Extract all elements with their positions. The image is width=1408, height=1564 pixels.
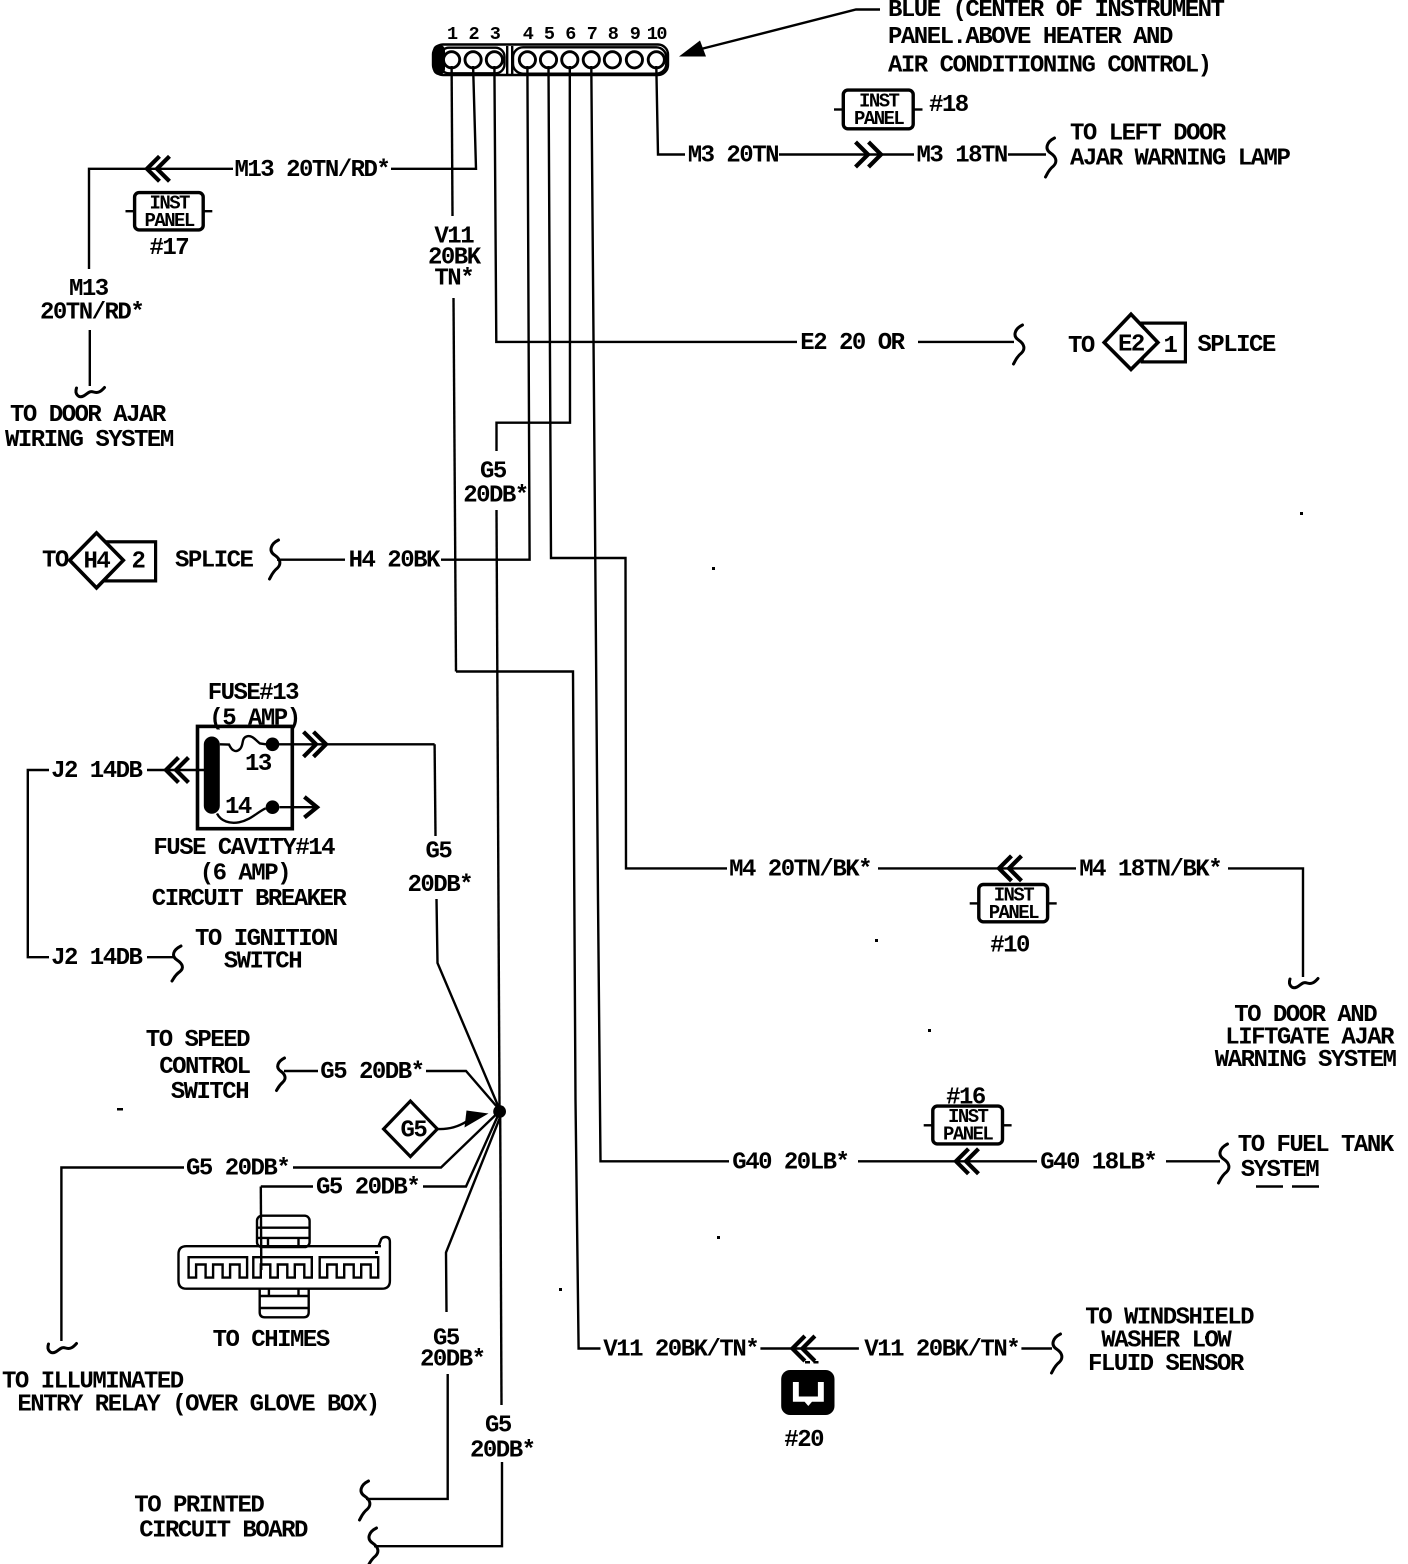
- wire H4 segment: [277, 559, 345, 561]
- wire G5 segment diagonal into junction: [426, 1071, 498, 1108]
- splice symbol H4 pin 2: [70, 533, 156, 588]
- wire G5 segment to squiggle: [366, 1374, 448, 1499]
- svg-text:1: 1: [1164, 333, 1178, 360]
- wire G5 from illuminated entry relay: [61, 1168, 184, 1342]
- wire J2 bracket: [28, 770, 49, 957]
- connector symbol (double chevron) on J2 wire: [166, 759, 187, 781]
- svg-text:TO: TO: [42, 548, 69, 575]
- wire M3 segment to off-page: [1008, 153, 1046, 155]
- svg-text:J2 14DB: J2 14DB: [51, 945, 142, 972]
- svg-text:(5 AMP): (5 AMP): [209, 706, 299, 733]
- svg-text:SPLICE: SPLICE: [175, 548, 254, 575]
- circuit breaker 14 element: [217, 808, 266, 823]
- wire G5 junction-vertical to squiggle (row 2): [374, 1462, 502, 1546]
- svg-text:WIRING SYSTEM: WIRING SYSTEM: [5, 427, 174, 454]
- note: to speed control switch: [146, 1027, 251, 1106]
- connector symbol (double chevron) on M4 wire: [999, 857, 1020, 879]
- wire-end hook to illuminated entry relay: [48, 1344, 77, 1353]
- wire G5 from chimes connector: [261, 1185, 313, 1187]
- svg-text:M13 20TN/RD*: M13 20TN/RD*: [235, 157, 390, 184]
- leader arrowhead: [465, 1111, 489, 1128]
- wire J2 segment to ignition switch: [147, 956, 174, 958]
- wire J2 14DB to fuse block: [147, 769, 204, 771]
- wire G5 branch to printed circuit board (row 1): [446, 1115, 501, 1312]
- svg-text:H4: H4: [84, 549, 111, 576]
- svg-text:5: 5: [544, 24, 555, 45]
- svg-text:G5 20DB*: G5 20DB*: [320, 1059, 423, 1086]
- svg-text:#20: #20: [784, 1427, 824, 1454]
- svg-text:#10: #10: [990, 933, 1030, 960]
- svg-text:TO FUEL TANK: TO FUEL TANK: [1238, 1132, 1395, 1159]
- svg-text:TO: TO: [1068, 333, 1095, 360]
- svg-text:#18: #18: [929, 92, 969, 119]
- svg-text:PANEL: PANEL: [943, 1124, 993, 1146]
- svg-text:G40 18LB*: G40 18LB*: [1040, 1149, 1156, 1176]
- note: to fuel tank system: [1238, 1132, 1395, 1184]
- wire from circuit breaker 14 output: [280, 806, 317, 808]
- wire G5 segment diagonal into junction: [293, 1113, 498, 1168]
- wire G5 from fuse down to junction: [433, 744, 436, 836]
- svg-text:AIR CONDITIONING CONTROL): AIR CONDITIONING CONTROL): [888, 53, 1211, 80]
- svg-text:#17: #17: [150, 235, 189, 262]
- label G5 20DB* (printed circuit branch 2): [470, 1413, 535, 1465]
- terminal section 1: [189, 1257, 248, 1277]
- svg-text:G5: G5: [480, 459, 507, 486]
- inline connector INST PANEL #16: [924, 1106, 1012, 1146]
- terminal section 3: [320, 1257, 379, 1277]
- wire M3 segment: [779, 153, 914, 155]
- terminal section 2: [253, 1257, 311, 1277]
- connector C1 body (10-cavity instrument panel connector): [433, 45, 668, 76]
- circuit breaker 14 terminal dot: [266, 800, 280, 814]
- pin 1 cavity: [444, 52, 460, 68]
- off-page squiggle from speed control switch: [277, 1058, 286, 1091]
- label G5 20DB* (printed circuit branch 1): [420, 1326, 485, 1374]
- svg-text:M3 20TN: M3 20TN: [688, 143, 778, 170]
- off-page squiggle to fuel tank system: [1219, 1144, 1229, 1183]
- label V11 20BK TN* (pin 1 wire label): [428, 224, 482, 293]
- chimes connector J-chimes: [179, 1216, 390, 1318]
- wire-end hook to door and liftgate ajar warning system: [1289, 979, 1318, 988]
- svg-text:CONTROL: CONTROL: [159, 1054, 250, 1081]
- svg-text:14: 14: [225, 794, 252, 821]
- svg-text:7: 7: [587, 24, 597, 45]
- note: to door ajar wiring system: [5, 402, 174, 454]
- junction dot (G5 splice point): [493, 1105, 506, 1118]
- wire M4 segment to door/liftgate ajar warning system: [1228, 868, 1303, 977]
- svg-text:TO CHIMES: TO CHIMES: [213, 1327, 330, 1354]
- connector main body: [179, 1237, 390, 1289]
- splice reference diamond G5: [384, 1101, 438, 1157]
- note: to windshield washer low fluid sensor: [1085, 1305, 1254, 1379]
- wire E2 segment: [918, 341, 1014, 343]
- svg-text:G5 20DB*: G5 20DB*: [316, 1175, 419, 1202]
- scan speckles: [117, 512, 1303, 1364]
- note: to printed circuit board: [134, 1493, 308, 1545]
- svg-text:20DB*: 20DB*: [408, 872, 473, 899]
- off-page squiggle to left door ajar warning lamp: [1046, 138, 1056, 177]
- svg-text:V11 20BK/TN*: V11 20BK/TN*: [603, 1337, 758, 1364]
- pin 6 cavity: [562, 52, 578, 68]
- note: to door and liftgate ajar warning system: [1215, 1002, 1397, 1074]
- svg-text:20TN/RD*: 20TN/RD*: [40, 300, 143, 327]
- svg-text:M4 20TN/BK*: M4 20TN/BK*: [729, 856, 871, 883]
- wire drop into chimes connector: [260, 1187, 263, 1271]
- wire M3: pin 10 to left door ajar warning lamp: [656, 66, 685, 155]
- svg-text:G5: G5: [426, 839, 453, 866]
- svg-text:G5: G5: [485, 1413, 512, 1440]
- svg-text:J2 14DB: J2 14DB: [51, 758, 142, 785]
- wire V11 segment: [760, 1347, 859, 1349]
- svg-text:TO PRINTED: TO PRINTED: [134, 1493, 264, 1520]
- inline connector INST PANEL #17: [126, 193, 213, 233]
- svg-text:WARNING SYSTEM: WARNING SYSTEM: [1215, 1047, 1397, 1074]
- svg-text:E2 20 OR: E2 20 OR: [800, 330, 905, 357]
- svg-text:4: 4: [523, 24, 534, 45]
- connector symbol (double chevron) on M13 wire: [147, 158, 168, 180]
- pin numbers 1-10: [447, 24, 667, 45]
- connector location callout leader arrow: [679, 41, 706, 57]
- connector top latch block: [257, 1216, 310, 1247]
- svg-text:9: 9: [630, 24, 640, 45]
- off-page squiggle to E2 splice: [1014, 325, 1024, 364]
- pin 8 cavity: [604, 52, 620, 68]
- stray dashes under SYSTEM: [1256, 1185, 1283, 1187]
- svg-text:M3 18TN: M3 18TN: [917, 143, 1007, 170]
- wire M4: pin 5 jog right and down: [549, 66, 728, 868]
- svg-text:FUSE CAVITY#14: FUSE CAVITY#14: [153, 835, 335, 862]
- svg-text:#16: #16: [946, 1085, 986, 1112]
- wire H4: pin 4 to splice H4: [441, 66, 530, 560]
- fuse 13 element: [220, 736, 266, 751]
- grommet symbol #20: [781, 1370, 834, 1415]
- wire G5 segment down to junction: [497, 510, 500, 1107]
- svg-text:8: 8: [608, 24, 619, 45]
- note: to left door ajar warning lamp: [1070, 121, 1290, 173]
- wire G5: pin 6 jog to main G5 net: [497, 66, 571, 451]
- label FUSE CAVITY#14 (6 AMP) CIRCUIT BREAKER: [152, 835, 348, 913]
- svg-text:FLUID SENSOR: FLUID SENSOR: [1088, 1351, 1245, 1378]
- svg-text:SYSTEM: SYSTEM: [1241, 1157, 1320, 1184]
- wire-end hook to door ajar wiring system: [76, 388, 105, 397]
- pin 7 cavity: [583, 52, 599, 68]
- wire M13 segment: [89, 169, 233, 269]
- label M13 / 20TN/RD* (vertical wire label): [40, 276, 143, 327]
- label G5 20DB* (fuse output wire): [408, 839, 473, 900]
- pin 10 cavity: [648, 52, 664, 68]
- wire M4 segment: [878, 867, 1076, 869]
- wire G5 from speed control switch: [284, 1070, 318, 1072]
- svg-text:CIRCUIT BOARD: CIRCUIT BOARD: [139, 1518, 308, 1545]
- wire from fuse 13 output: [279, 743, 435, 745]
- wire V11: pin 1 down: [450, 66, 453, 216]
- svg-text:20DB*: 20DB*: [420, 1347, 485, 1374]
- wire G5 segment diagonal into junction: [423, 1115, 498, 1187]
- svg-text:PANEL: PANEL: [145, 210, 195, 232]
- connector symbol (single chevron) breaker 14 output: [306, 798, 317, 816]
- svg-text:FUSE#13: FUSE#13: [208, 680, 299, 707]
- pin 2 cavity: [465, 52, 481, 68]
- fuse block F13 / circuit breaker CB14: [198, 680, 300, 829]
- wire G40: pin 7 down to fuel tank row: [591, 66, 729, 1161]
- off-page squiggle to printed circuit board: [360, 1481, 370, 1520]
- connector bottom latch block: [260, 1289, 309, 1318]
- note: to illuminated entry relay (over glove box): [2, 1369, 379, 1419]
- svg-text:PANEL.ABOVE HEATER AND: PANEL.ABOVE HEATER AND: [888, 24, 1173, 51]
- svg-text:H4 20BK: H4 20BK: [349, 548, 441, 575]
- svg-text:TN*: TN*: [434, 266, 473, 293]
- svg-text:2: 2: [132, 549, 145, 576]
- note: to ignition switch: [195, 926, 337, 976]
- svg-text:G5: G5: [401, 1118, 428, 1145]
- svg-text:PANEL: PANEL: [989, 902, 1039, 924]
- label G5 20DB* (pin 6 wire): [463, 459, 528, 510]
- wire G5 below junction: [500, 1116, 501, 1405]
- wire E2: pin 3 to splice: [494, 66, 797, 342]
- svg-text:BLUE (CENTER OF INSTRUMENT: BLUE (CENTER OF INSTRUMENT: [888, 0, 1225, 24]
- svg-text:PANEL: PANEL: [854, 108, 904, 130]
- svg-text:SWITCH: SWITCH: [224, 949, 302, 976]
- svg-text:AJAR WARNING LAMP: AJAR WARNING LAMP: [1070, 146, 1290, 173]
- off-page squiggle to H4 splice: [270, 540, 280, 579]
- svg-text:(6 AMP): (6 AMP): [200, 861, 290, 888]
- pin 5 cavity: [540, 52, 556, 68]
- pin 9 cavity: [626, 52, 642, 68]
- bus bar (filled): [204, 737, 220, 814]
- svg-text:G40 20LB*: G40 20LB*: [732, 1149, 848, 1176]
- svg-text:TO SPEED: TO SPEED: [146, 1027, 250, 1054]
- svg-text:20DB*: 20DB*: [470, 1438, 535, 1465]
- inline connector INST PANEL #18: [834, 90, 923, 130]
- svg-text:SWITCH: SWITCH: [171, 1079, 249, 1106]
- svg-text:2: 2: [469, 24, 480, 45]
- svg-text:E2: E2: [1118, 332, 1144, 359]
- off-page squiggle to printed circuit board (row 2): [368, 1528, 378, 1564]
- svg-text:TO LEFT DOOR: TO LEFT DOOR: [1070, 121, 1227, 148]
- connector symbol (double chevron) fuse 13 output: [305, 733, 326, 755]
- svg-text:CIRCUIT BREAKER: CIRCUIT BREAKER: [152, 886, 348, 913]
- pin 4 cavity: [519, 52, 535, 68]
- svg-text:SPLICE: SPLICE: [1197, 332, 1276, 359]
- wire M13 lower segment: [89, 330, 91, 386]
- svg-text:13: 13: [245, 751, 272, 778]
- inline connector INST PANEL #10: [970, 885, 1057, 925]
- svg-text:3: 3: [490, 24, 501, 45]
- svg-text:TO DOOR AJAR: TO DOOR AJAR: [10, 402, 167, 429]
- curved leader from G5 diamond to junction: [437, 1122, 466, 1130]
- svg-text:G5 20DB*: G5 20DB*: [186, 1156, 289, 1183]
- svg-text:1: 1: [447, 24, 458, 45]
- pin 3 cavity: [486, 52, 502, 68]
- wire G40 segment: [858, 1160, 1037, 1162]
- off-page squiggle to ignition switch: [172, 946, 182, 981]
- connector symbol (double chevron) on M3 wire: [857, 144, 881, 166]
- connector symbol (double chevron) on V11 wire: [792, 1338, 813, 1360]
- fuse housing outline: [198, 726, 293, 828]
- svg-text:10: 10: [647, 24, 668, 45]
- connector symbol (double chevron) on G40 wire: [956, 1150, 977, 1172]
- wire V11 jog right then down page: [456, 672, 601, 1349]
- wire G40 segment to off-page: [1166, 1160, 1220, 1162]
- wire V11 segment to off-page: [1021, 1347, 1052, 1349]
- svg-text:20DB*: 20DB*: [463, 483, 528, 510]
- connector location note text: [888, 0, 1225, 80]
- splice symbol E2 pin 1: [1104, 314, 1185, 369]
- fuse 13 terminal dot: [266, 738, 280, 752]
- svg-text:6: 6: [565, 24, 576, 45]
- off-page squiggle to windshield washer low fluid sensor: [1052, 1334, 1062, 1373]
- svg-text:ENTRY RELAY (OVER GLOVE BOX): ENTRY RELAY (OVER GLOVE BOX): [17, 1392, 378, 1419]
- wire M13 20TN/RD: pin 2 to door ajar wiring system: [391, 66, 476, 169]
- wire G5 segment diagonal into junction: [437, 899, 500, 1108]
- svg-text:V11 20BK/TN*: V11 20BK/TN*: [864, 1337, 1019, 1364]
- svg-text:M4 18TN/BK*: M4 18TN/BK*: [1079, 856, 1221, 883]
